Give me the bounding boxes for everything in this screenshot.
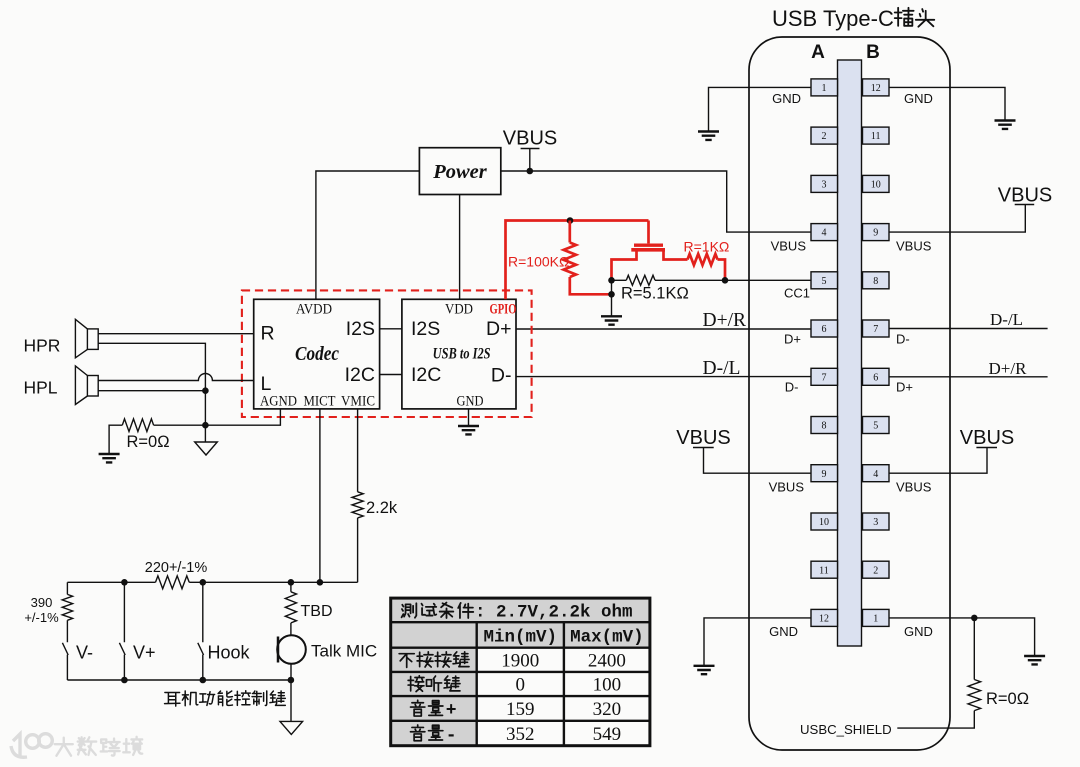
pin A11 (left column row 11)	[811, 561, 838, 578]
svg-text:V-: V-	[76, 643, 93, 663]
svg-text:-: -	[446, 726, 457, 746]
junction VBUS tap near Power	[527, 168, 534, 175]
svg-text:VBUS: VBUS	[960, 427, 1014, 449]
svg-text:AGND: AGND	[260, 394, 297, 410]
wire Codec AVDD to Power	[316, 171, 420, 299]
svg-text:R=0Ω: R=0Ω	[986, 690, 1029, 708]
svg-text:R=100KΩ: R=100KΩ	[508, 254, 569, 270]
junction GPIO net / R100K	[567, 217, 574, 224]
table row label 不按按键	[399, 654, 414, 668]
svg-text:12: 12	[871, 83, 881, 94]
pin A9 (left column row 9)	[811, 465, 838, 482]
transistor Q1 channel bar	[631, 248, 665, 252]
svg-text:VBUS: VBUS	[769, 480, 805, 495]
junction CC1/R5.1K left	[608, 277, 615, 284]
transistor Q1 drain lead to R=1K	[664, 250, 688, 260]
svg-text:100: 100	[593, 675, 622, 696]
svg-text:I2S: I2S	[346, 318, 375, 340]
svg-text:8: 8	[822, 421, 827, 432]
svg-text:11: 11	[819, 565, 829, 576]
ground symbol bottom-right	[1024, 656, 1045, 664]
wire pin B9 to top-right VBUS	[889, 205, 1034, 233]
svg-text:R=0Ω: R=0Ω	[127, 433, 170, 451]
svg-text:9: 9	[873, 228, 878, 239]
wire CC1 from R=5.1K node to pin A5	[725, 279, 811, 281]
pin B1 (right column row 12)	[863, 609, 890, 626]
table title 测试条件: 2.7V,2.2k ohm	[402, 603, 417, 617]
block USB to I2S	[402, 299, 516, 409]
pin A12 (left column row 12)	[811, 609, 838, 626]
block Power	[419, 148, 500, 195]
wire shield resistor to USBC_SHIELD	[897, 711, 974, 729]
wire D+ output to pin A6	[516, 328, 811, 330]
junction bus/TBD	[288, 579, 295, 586]
transistor Q1 (MOSFET) gate riser	[647, 221, 650, 244]
resistor R=0Ω horizontal + AGND bus	[109, 425, 122, 454]
pin A7 (left column row 7)	[811, 368, 838, 385]
svg-text:GND: GND	[457, 394, 484, 410]
svg-text:HPR: HPR	[24, 336, 61, 356]
junction bus/Hook	[200, 579, 207, 586]
junction bottom/MIC	[288, 677, 295, 684]
svg-text:GPIO: GPIO	[490, 302, 517, 318]
pin B8 (right column row 5)	[863, 272, 890, 289]
ground symbol top-right of connector	[995, 121, 1016, 129]
svg-text:R: R	[261, 323, 275, 345]
svg-text:: 2.7V,2.2k ohm: : 2.7V,2.2k ohm	[475, 603, 633, 623]
wire HPL- to node	[98, 390, 205, 392]
svg-text:USB to I2S: USB to I2S	[433, 346, 491, 363]
wire CC1 node to ground	[611, 280, 613, 316]
table row label 音量+	[411, 700, 425, 716]
svg-text:8: 8	[873, 276, 878, 287]
svg-text:10: 10	[871, 180, 881, 191]
wire I2S-I2S	[380, 328, 402, 330]
transistor Q1 source lead to CC1 node	[612, 250, 637, 281]
svg-text:2.2k: 2.2k	[366, 499, 398, 517]
svg-text:390: 390	[31, 595, 53, 610]
button bus top with 220 resistor	[67, 581, 155, 583]
wire HP common down to AGND bus	[204, 391, 206, 442]
resistor R=5.1KΩ horizontal	[612, 279, 627, 281]
resistor R=100KΩ vertical red	[568, 221, 571, 243]
svg-text:549: 549	[593, 724, 622, 745]
svg-text:USB Type-C: USB Type-C	[772, 6, 894, 31]
pin B2 (right column row 11)	[863, 561, 890, 578]
wire pin B12 to right ground	[889, 87, 1005, 120]
wire VBUS from Power to pin A4	[501, 171, 811, 232]
svg-text:2400: 2400	[588, 650, 626, 671]
connector tongue (center paddle)	[838, 60, 862, 646]
pin B4 (right column row 9)	[863, 465, 890, 482]
transistor Q1 gate bar	[634, 243, 663, 246]
pin B10 (right column row 3)	[863, 175, 890, 192]
svg-text:4: 4	[822, 228, 827, 239]
svg-text:V+: V+	[133, 643, 156, 663]
button bus bottom	[67, 679, 291, 681]
svg-text:+: +	[446, 701, 457, 721]
junction CC1/R1K right	[722, 277, 729, 284]
pin A2 (left column row 2)	[811, 127, 838, 144]
ground symbol top-left of connector	[698, 132, 719, 140]
junction bottom/V+	[121, 677, 128, 684]
label 耳机功能控制键	[165, 692, 180, 706]
junction bus/V+	[121, 579, 128, 586]
pin B9 (right column row 4)	[863, 224, 890, 241]
svg-text:D-/L: D-/L	[703, 358, 741, 379]
junction R100K bottom node	[608, 291, 615, 298]
svg-text:USBC_SHIELD: USBC_SHIELD	[800, 722, 892, 737]
speaker HPL	[75, 366, 98, 405]
svg-text:Power: Power	[432, 161, 488, 183]
wire D- output to pin A7	[516, 376, 811, 378]
svg-text:Talk MIC: Talk MIC	[311, 642, 377, 661]
VBUS net stub at Power output	[521, 149, 540, 172]
junction bottom/Hook	[200, 677, 207, 684]
wire HPL+ to Codec L with hop	[98, 374, 254, 381]
junction HP common	[202, 387, 209, 394]
svg-text:VDD: VDD	[445, 302, 473, 318]
wire pin B6 to right edge	[889, 376, 1048, 378]
pin A8 (left column row 8)	[811, 417, 838, 434]
pin B3 (right column row 10)	[863, 513, 890, 530]
resistor 2.2k vertical	[352, 492, 363, 518]
svg-text:L: L	[261, 373, 272, 395]
svg-text:VBUS: VBUS	[896, 480, 932, 495]
svg-text:1: 1	[873, 614, 878, 625]
svg-text:VMIC: VMIC	[341, 394, 375, 410]
svg-text:MICT: MICT	[304, 394, 336, 410]
svg-text:1900: 1900	[501, 650, 539, 671]
svg-text:D-/L: D-/L	[990, 310, 1023, 329]
svg-text:D+: D+	[896, 380, 913, 395]
speaker HPR	[75, 319, 98, 358]
svg-text:1: 1	[822, 83, 827, 94]
svg-text:320: 320	[593, 699, 622, 720]
pin B12 (right column row 1)	[863, 79, 890, 96]
pin B5 (right column row 8)	[863, 417, 890, 434]
resistor TBD vertical	[290, 582, 292, 592]
resistor R=1KΩ red horizontal	[688, 254, 718, 265]
table row label 音量-	[411, 725, 425, 741]
microphone Talk MIC	[277, 635, 306, 664]
connector title USB Type-C 插头	[772, 6, 934, 31]
svg-text:159: 159	[506, 699, 535, 720]
svg-text:7: 7	[873, 324, 878, 335]
svg-text:D+: D+	[486, 318, 511, 340]
svg-text:VBUS: VBUS	[676, 427, 730, 449]
wire pin A12 to bottom-left ground	[704, 618, 811, 666]
svg-text:VBUS: VBUS	[998, 185, 1052, 207]
wire pin B1 to bottom-right ground	[889, 618, 1035, 656]
USB Type-C connector body outline	[749, 37, 950, 750]
svg-text:I2S: I2S	[411, 318, 440, 340]
svg-text:D+/R: D+/R	[989, 359, 1028, 378]
pin B7 (right column row 6)	[863, 320, 890, 337]
svg-text:B: B	[866, 42, 880, 63]
svg-text:352: 352	[506, 724, 535, 745]
table row label 接听键	[408, 676, 424, 692]
pin B6 (right column row 7)	[863, 368, 890, 385]
svg-text:5: 5	[873, 421, 878, 432]
wire MIC to ground triangle	[290, 664, 292, 722]
svg-text:Max(mV): Max(mV)	[570, 628, 644, 648]
svg-text:Codec: Codec	[295, 344, 339, 365]
junction AGND bus	[202, 422, 209, 429]
ground symbol R=0 left	[99, 454, 120, 462]
junction bus/MICT	[317, 579, 324, 586]
svg-text:10: 10	[819, 517, 829, 528]
svg-text:D-: D-	[491, 365, 512, 387]
svg-text:A: A	[811, 42, 825, 63]
wire pin A9 to left VBUS stub	[693, 448, 811, 474]
junction shield resistor tap	[971, 615, 978, 622]
labels AGND MICT VMIC	[260, 394, 375, 410]
svg-text:3: 3	[822, 180, 827, 191]
wire VMIC down through 2.2k	[357, 409, 359, 492]
red wire R100K bottom to CC1 node	[570, 277, 612, 294]
svg-text:7: 7	[822, 372, 827, 383]
resistor R=0 (shield) vertical	[973, 618, 975, 680]
wire pin B4 to right VBUS stub	[889, 448, 997, 474]
svg-text:GND: GND	[904, 624, 933, 639]
svg-text:I2C: I2C	[345, 364, 375, 386]
svg-text:2: 2	[822, 131, 827, 142]
svg-text:220+/-1%: 220+/-1%	[145, 560, 208, 576]
pin A6 (left column row 6)	[811, 320, 838, 337]
svg-text:9: 9	[822, 469, 827, 480]
svg-text:VBUS: VBUS	[896, 239, 932, 254]
pin A5 (left column row 5)	[811, 272, 838, 289]
wire Power VDD down to USB-I2S	[459, 195, 461, 300]
watermark 大数跨境	[55, 738, 73, 756]
ground symbol under USB-I2S	[458, 426, 479, 434]
pin A1 (left column row 1)	[811, 79, 838, 96]
svg-text:TBD: TBD	[301, 603, 333, 620]
svg-text:2: 2	[873, 565, 878, 576]
pin A10 (left column row 10)	[811, 513, 838, 530]
svg-text:Hook: Hook	[208, 643, 251, 663]
svg-text:AVDD: AVDD	[296, 302, 332, 318]
svg-text:12: 12	[819, 614, 829, 625]
svg-text:GND: GND	[904, 91, 933, 106]
svg-text:VBUS: VBUS	[771, 239, 807, 254]
switch V-	[62, 620, 68, 680]
svg-text:6: 6	[873, 372, 878, 383]
svg-text:6: 6	[822, 324, 827, 335]
svg-text:GND: GND	[772, 91, 801, 106]
svg-text:11: 11	[871, 131, 881, 142]
wire HPR- down	[98, 343, 205, 390]
svg-text:D+/R: D+/R	[703, 310, 747, 331]
analog ground triangle	[195, 442, 218, 455]
watermark logo 100	[11, 734, 52, 758]
table background fills	[391, 598, 650, 622]
analog ground triangle under MIC	[280, 721, 303, 734]
svg-text:D+: D+	[784, 332, 801, 347]
svg-text:I2C: I2C	[411, 364, 441, 386]
ground symbol bottom-left of connector	[694, 666, 715, 674]
svg-text:R=5.1KΩ: R=5.1KΩ	[621, 285, 689, 303]
table grid	[391, 622, 650, 746]
svg-text:HPL: HPL	[24, 378, 58, 398]
svg-text:Min(mV): Min(mV)	[484, 628, 558, 648]
wire pin B7 to right edge	[889, 328, 1048, 330]
switch Hook	[198, 582, 204, 680]
svg-text:4: 4	[873, 469, 878, 480]
wire MICT down to button bus	[319, 409, 321, 582]
label 390 +/-1%	[24, 595, 59, 625]
pin A4 (left column row 4)	[811, 224, 838, 241]
svg-text:VBUS: VBUS	[503, 128, 557, 150]
pin A3 (left column row 3)	[811, 175, 838, 192]
resistor 390 vertical	[66, 582, 68, 594]
svg-text:0: 0	[516, 675, 526, 696]
wire pin A1 to left ground	[709, 87, 812, 131]
red wire GPIO up and across	[506, 221, 649, 300]
svg-text:+/-1%: +/-1%	[24, 610, 59, 625]
svg-text:D-: D-	[896, 332, 910, 347]
svg-text:CC1: CC1	[784, 286, 810, 301]
svg-text:5: 5	[822, 276, 827, 287]
svg-text:D-: D-	[785, 380, 799, 395]
wire HPR+ to Codec R	[98, 333, 254, 335]
svg-text:GND: GND	[769, 624, 798, 639]
ground symbol CC1 divider	[601, 316, 622, 324]
switch V+	[119, 582, 125, 680]
svg-text:R=1KΩ: R=1KΩ	[684, 239, 730, 255]
svg-text:3: 3	[873, 517, 878, 528]
block Codec	[254, 299, 380, 409]
wire USB-I2S GND to ground	[468, 409, 470, 426]
pin B11 (right column row 2)	[863, 127, 890, 144]
red wire R1K to CC1 line	[718, 260, 726, 281]
wire I2C-I2C	[380, 374, 402, 376]
red dashed module outline	[242, 290, 532, 417]
